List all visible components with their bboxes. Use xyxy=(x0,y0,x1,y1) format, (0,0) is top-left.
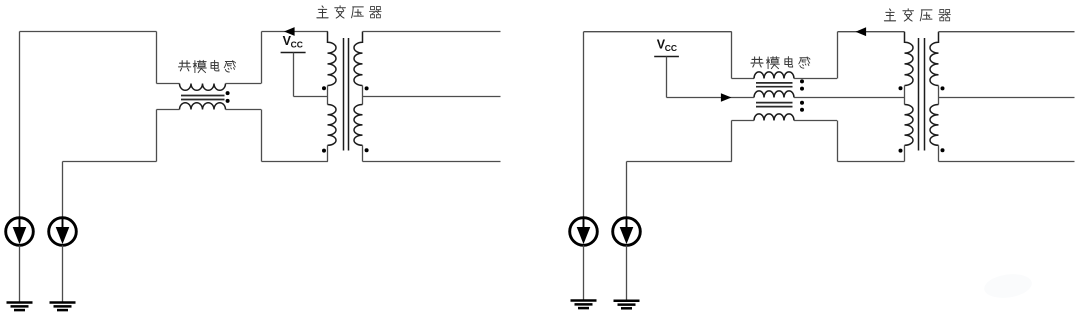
current source I3 xyxy=(570,218,598,246)
wire: Vcc down-lead (right) xyxy=(666,57,668,98)
wire: vertical to current source I4 xyxy=(626,162,628,218)
T1 secondary jog to center tap xyxy=(362,86,364,105)
wire: T1 secondary center-tap output rail xyxy=(363,96,501,98)
transformer T2 secondary bottom winding xyxy=(930,105,939,146)
wire: far-left vertical to current source I1 xyxy=(19,32,21,218)
choke L2 polarity dot 3 xyxy=(800,101,804,105)
ground (left circuit, under I1) xyxy=(7,303,33,311)
wire: choke L1 bottom-left stub xyxy=(157,109,180,111)
wire: I4 to ground xyxy=(626,245,628,300)
common-mode choke L1 top winding xyxy=(180,84,226,91)
wire: T1 secondary bottom to rail xyxy=(362,145,364,161)
ground (left circuit, under I2) xyxy=(50,303,76,311)
common-mode choke L2 top winding xyxy=(754,72,794,79)
T2 primary polarity dot (lower) xyxy=(899,149,903,153)
wire: Vcc feed into choke L2 middle winding xyxy=(667,97,755,99)
current-direction arrow (left-pointing) on right top rail xyxy=(856,27,867,36)
wire: drop to bottom rail xyxy=(261,110,263,162)
transformer T1 secondary bottom winding xyxy=(354,105,363,146)
wire: top rail to transformer T1 xyxy=(262,31,328,33)
wire: choke L2 top-left stub xyxy=(732,78,755,80)
wire: bottom rail to T2 primary xyxy=(838,161,905,163)
transformer T1 primary bottom winding xyxy=(328,105,337,146)
wire: I2 to ground xyxy=(62,245,64,302)
wire: T1 secondary top output rail xyxy=(363,31,501,33)
T1 secondary polarity dot (lower) xyxy=(365,148,369,152)
common-mode choke L1 bottom winding xyxy=(180,103,226,110)
T2 secondary polarity dot (upper) xyxy=(941,86,945,90)
wire: riser to top rail 2 (right) xyxy=(837,32,839,79)
choke L1 polarity dot (bottom) xyxy=(226,99,230,103)
T2 primary jog to center tap xyxy=(904,86,906,105)
choke L1 polarity dot (top) xyxy=(226,91,230,95)
wire: choke L2 top-right stub xyxy=(794,78,837,80)
wire: I1 to ground xyxy=(19,245,21,302)
wire: choke L2 bottom-left stub xyxy=(732,120,755,122)
choke L2 core lines (upper pair) xyxy=(756,83,793,87)
wire: T1 secondary bottom output rail xyxy=(363,161,501,163)
wire: T2 secondary top output rail xyxy=(939,31,1075,33)
T1 secondary polarity dot (upper) xyxy=(365,86,369,90)
transformer T2 core xyxy=(919,38,925,151)
wire: drop to bottom rail (right) xyxy=(837,121,839,162)
current source I4 xyxy=(613,218,641,246)
wire: I3 to ground xyxy=(583,245,585,300)
transformer T2 secondary top winding xyxy=(930,32,939,86)
transformer T2 primary bottom winding xyxy=(905,105,914,146)
label: 主变压器 (main transformer), left xyxy=(317,6,381,18)
choke L2 polarity dot 2 xyxy=(800,87,804,91)
common-mode choke L2 middle winding (Vcc feed) xyxy=(754,91,794,98)
wire: riser to top rail 2 xyxy=(261,32,263,84)
T2 secondary polarity dot (lower) xyxy=(941,148,945,152)
current-direction arrow (left-pointing) on top rail xyxy=(284,27,295,36)
current-direction arrow (right-pointing) on Vcc feed xyxy=(721,93,732,102)
wire: choke L1 top-right stub xyxy=(226,83,262,85)
label: 共模电感 (common-mode choke), left xyxy=(178,60,235,72)
wire: choke L2 bottom-right stub xyxy=(794,120,837,122)
T2 secondary jog to center tap xyxy=(938,86,940,105)
choke L2 polarity dot 1 xyxy=(800,79,804,83)
transformer T1 core xyxy=(344,38,349,151)
wire: bottom rail to T1 primary xyxy=(262,161,328,163)
Vcc supply symbol (left circuit) xyxy=(281,34,306,53)
T1 primary winding jog to center tap xyxy=(327,86,329,105)
wire: Vcc down-lead xyxy=(293,53,295,97)
faint watermark ellipse xyxy=(983,271,1034,300)
wire: right circuit top rail (left segment) xyxy=(584,31,732,33)
ground (right circuit, under I4) xyxy=(614,301,640,309)
wire: lower-left rail xyxy=(63,161,157,163)
current source I2 xyxy=(49,218,77,246)
wire: lower rail (right circuit) xyxy=(627,161,732,163)
current source I1 xyxy=(6,218,34,246)
wire: top rail to transformer T2 xyxy=(838,31,905,33)
wire: drop to choke L2 top winding xyxy=(731,32,733,79)
ground (right circuit, under I3) xyxy=(571,301,597,309)
wire: vertical to current source I2 xyxy=(62,162,64,218)
common-mode choke L2 bottom winding xyxy=(754,114,794,121)
label: 共模电感 (common-mode choke), right xyxy=(751,57,810,69)
T2 primary polarity dot (upper) xyxy=(899,86,903,90)
svg-text:CC: CC xyxy=(291,39,303,49)
wire: T2 secondary bottom to rail xyxy=(938,145,940,161)
T1 primary polarity dot (lower) xyxy=(322,149,326,153)
wire: T1 primary bottom to rail xyxy=(327,145,329,161)
svg-text:CC: CC xyxy=(665,43,677,53)
choke L1 core lines xyxy=(181,96,225,100)
wire: riser to choke L1 bottom-left xyxy=(156,110,158,162)
wire: riser to choke L2 bottom-left xyxy=(731,121,733,162)
wire: Vcc to T1 primary center tap xyxy=(294,96,328,98)
Vcc supply symbol (right circuit) xyxy=(654,38,679,57)
wire: vertical to current source I3 xyxy=(583,32,585,218)
choke L2 core lines (lower pair) xyxy=(756,103,793,107)
label: 主变压器 (main transformer), right xyxy=(884,9,950,21)
choke L2 polarity dot 4 xyxy=(800,108,804,112)
wire: choke L1 bottom-right stub xyxy=(226,109,262,111)
transformer T1 secondary top winding xyxy=(354,32,363,86)
wire: T2 primary bottom to rail xyxy=(904,145,906,161)
wire: choke middle winding to T2 primary center tap xyxy=(794,97,905,99)
wire: T2 secondary center-tap output rail xyxy=(939,97,1075,99)
transformer T2 primary top winding xyxy=(905,32,914,86)
T1 primary polarity dot (upper) xyxy=(322,86,326,90)
transformer T1 primary top winding xyxy=(328,32,337,86)
wire: drop into common-mode choke L1 top xyxy=(156,32,158,84)
wire: T2 secondary bottom output rail xyxy=(939,161,1075,163)
wire: left top rail xyxy=(20,31,157,33)
wire: choke L1 top-left stub xyxy=(157,83,180,85)
